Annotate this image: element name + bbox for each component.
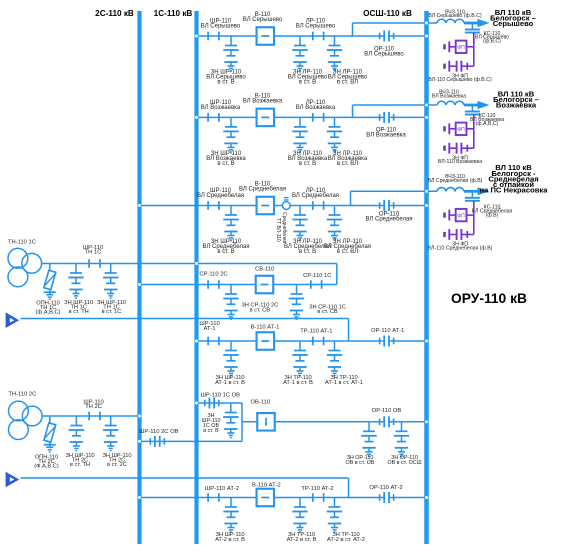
ground switch ЗН ЛР-110 ВЛ Среднебелая в ст. В (292, 206, 307, 241)
disconnector ШР-110 АТ-1 (208, 337, 219, 346)
svg-text:ШР-110 2С ОВ: ШР-110 2С ОВ (139, 429, 178, 435)
svg-text:(ф.А,В,С): (ф.А,В,С) (476, 121, 499, 127)
label ЗН СР-110 1С в ст. СВ (309, 304, 346, 315)
wire АТ-2 bay main (140, 497, 385, 499)
label ЗН ШР-110 ТН 1С в ст. 1С (97, 300, 126, 315)
ground switch ЗН ТР-110 АТ-2 в ст. В (292, 498, 307, 533)
svg-text:в ст. В: в ст. В (217, 161, 234, 167)
filter ФП ВЛ Среднебелая (456, 209, 467, 221)
svg-text:ВЛ Возжаевка: ВЛ Возжаевка (432, 93, 466, 99)
wire Серышево bay main right (389, 35, 427, 37)
breaker СВ-110 (256, 276, 274, 294)
label ОР-110 ВЛ Среднебелая (365, 212, 412, 223)
disconnector ЛР-110 ВЛ Среднебелая (313, 201, 324, 210)
label ЛР-110 ВЛ Серышево (296, 19, 336, 30)
svg-text:ВЛ Возжаевка: ВЛ Возжаевка (366, 133, 406, 139)
ground switch ЗН ФП Возжаевка (445, 143, 474, 154)
label ЗН ШР-110 1С ОВ в ст. В (202, 413, 221, 434)
wire АТ-2 transformer lead (21, 477, 349, 479)
svg-text:в ст. ВЛ: в ст. ВЛ (337, 249, 358, 255)
svg-text:ВЛ Возжаевка: ВЛ Возжаевка (296, 105, 336, 111)
ground switch ЗН ШР-110 1С ОВ в ст. В (223, 403, 238, 438)
disconnector ШР-110 ВЛ Среднебелая (208, 201, 219, 210)
svg-text:ФП: ФП (457, 213, 465, 219)
svg-text:ВЛ Среднебелая: ВЛ Среднебелая (197, 193, 244, 199)
label ЗН ФП ВЛ-110 Среднебелая (428, 242, 493, 252)
node ТН2С on 2С (138, 415, 141, 418)
wire АТ-1 transformer lead (21, 318, 349, 320)
svg-text:ТТ ВЛ-110: ТТ ВЛ-110 (275, 218, 281, 242)
node Серышево on 1С (195, 35, 198, 38)
wire ТН-110 2С to 2С bus (42, 415, 139, 417)
wire Возжаевка bay main (197, 116, 385, 118)
disconnector ШР-110 1С ОВ (205, 398, 219, 409)
node line1 on ОСШ (425, 22, 428, 25)
node АТ-2 on ОСШ (425, 496, 428, 499)
svg-text:в ст. В: в ст. В (299, 79, 316, 85)
svg-text:ВЛ Серышево: ВЛ Серышево (243, 17, 283, 23)
breaker В-110 ВЛ Возжаевка (257, 109, 275, 127)
HF cable plug ФП Серышево (445, 41, 456, 52)
svg-text:ВЛ-110 Серышево (ф.В.С): ВЛ-110 Серышево (ф.В.С) (428, 77, 492, 83)
ground switch ЗН ШР-110 ВЛ Среднебелая в ст. В (223, 206, 238, 241)
ground switch ЗН СР-110 2С в ст. СВ (223, 285, 238, 320)
svg-text:(Ф.А,В,С): (Ф.А,В,С) (34, 463, 59, 469)
label ОПН-110 ТН 1С (36, 301, 61, 316)
label ВЧЗ-110 ВЛ Возжаевка (432, 89, 466, 99)
disconnector ШР-110 АТ-2 (208, 493, 219, 502)
svg-text:ВЛ Среднебелая: ВЛ Среднебелая (365, 217, 412, 223)
ground switch ЗН ЛР-110 ВЛ Среднебелая в ст. ВЛ (327, 206, 342, 241)
label ВЛ 110 кВ Белогорск – Серышево (490, 8, 536, 28)
label ШР-110 ВЛ Возжаевка (201, 100, 241, 111)
node ОВ on 2С (138, 440, 141, 443)
wire HF drop Серышево (467, 33, 474, 67)
label ЛР-110 ВЛ Возжаевка (296, 100, 336, 111)
filter ФП ВЛ Серышево (456, 41, 467, 53)
svg-text:в ст. В: в ст. В (203, 428, 219, 434)
svg-text:в ст. ВЛ: в ст. ВЛ (337, 79, 358, 85)
line arrow ВЛ Среднебелая (464, 187, 490, 195)
ground switch ЗН ЛР-110 ВЛ Серышево в ст. В (292, 36, 307, 71)
bus 2С-110 кВ (137, 11, 141, 544)
coupling capacitor КС-110 ВЛ Возжаевка (465, 105, 480, 115)
svg-text:ОВ-110: ОВ-110 (251, 399, 271, 405)
label ШР-110 ВЛ Среднебелая (197, 188, 244, 199)
label ШР-110 АТ-1 (199, 321, 219, 332)
svg-text:в ст. В: в ст. В (217, 249, 234, 255)
ground switch ЗН СР-110 1С в ст. СВ (289, 285, 304, 320)
wire ОВ from 1С bus (197, 402, 243, 404)
label ШР-110 ВЛ Серышево (201, 19, 241, 30)
label ЗН ЛР-110 Возжаевка в ст. ВЛ (328, 151, 368, 167)
HF cable plug ФП Среднебелая (445, 210, 456, 221)
wire ТН-110 1С to 1С bus (42, 263, 197, 265)
svg-text:ФП: ФП (457, 127, 465, 133)
svg-text:ТН-110 2С: ТН-110 2С (8, 392, 36, 398)
node Среднебелая on 2С (138, 204, 141, 207)
svg-text:ОРУ-110 кВ: ОРУ-110 кВ (451, 291, 527, 306)
disconnector ШР-110 ВЛ Возжаевка (208, 113, 219, 122)
svg-text:Возжаевка: Возжаевка (496, 101, 537, 110)
svg-text:СР-110 2С: СР-110 2С (199, 271, 227, 277)
svg-text:на ПС Некрасовка: на ПС Некрасовка (480, 186, 549, 195)
svg-text:ОР-110 АТ-2: ОР-110 АТ-2 (369, 485, 402, 491)
svg-text:СВ-110: СВ-110 (255, 267, 274, 273)
ground switch ЗН ТР-110 АТ-1 в ст. АТ-1 (327, 341, 342, 376)
disconnector СР-110 1С (311, 280, 322, 289)
arrow to АТ-1 (6, 312, 20, 328)
label ЗН ШР-110 Возжаевка в ст. В (206, 151, 246, 167)
ground switch ЗН ШР-110 АТ-2 в ст. В (223, 498, 238, 533)
label ЗН ШР-110 АТ-2 в ст. В (215, 532, 245, 543)
ground switch ЗН ШР-110 ТН 2С в ст. ТН (69, 416, 84, 451)
svg-text:ВЛ Серышево: ВЛ Серышево (296, 24, 336, 30)
svg-text:в ст. ТН: в ст. ТН (70, 462, 90, 468)
filter ФП ВЛ Возжаевка (456, 123, 467, 135)
svg-text:ОВ в ст. ОСШ: ОВ в ст. ОСШ (387, 460, 421, 466)
svg-text:в ст. В: в ст. В (299, 161, 316, 167)
label ОР-110 ВЛ Возжаевка (366, 128, 406, 139)
ground switch ЗН ФП Серышево (445, 61, 474, 72)
ground switch ЗН ШР-110 ВЛ Возжаевка в ст. В (223, 117, 238, 152)
svg-text:АТ-1 в ст. АТ-1: АТ-1 в ст. АТ-1 (325, 380, 363, 386)
svg-text:ТР-110 АТ-1: ТР-110 АТ-1 (300, 328, 332, 334)
wire АТ-1 riser (348, 319, 350, 342)
HF cable plug ФП Возжаевка (445, 123, 456, 134)
svg-text:ОВ в ст. ОВ: ОВ в ст. ОВ (346, 460, 375, 466)
label КС-110 ВЛ Возжаевка (470, 113, 504, 127)
label ОПН-110 ТН 2С (34, 454, 59, 469)
coupling capacitor КС-110 ВЛ Серышево (465, 23, 480, 33)
label ВЛ 110 кВ Белогорск - Среднебелая (480, 163, 549, 194)
ground switch ЗН ШР-110 АТ-1 в ст. В (223, 341, 238, 376)
line arrow ВЛ Возжаевка (464, 101, 490, 109)
svg-text:(ф.А,В,С): (ф.А,В,С) (36, 310, 61, 316)
label КС-110 ВЛ Серышево (475, 31, 509, 45)
node АТ-1 on ОСШ (425, 340, 428, 343)
svg-text:ВЛ-110 Среднебелая (ф.В): ВЛ-110 Среднебелая (ф.В) (428, 245, 493, 251)
label ШР-110 ТН 1С (83, 245, 103, 256)
wire СВ return to 1С (197, 263, 337, 265)
ground switch ЗН ЛР-110 ВЛ Возжаевка в ст. ВЛ (327, 117, 342, 152)
svg-text:в ст. 1С: в ст. 1С (102, 309, 122, 315)
svg-text:АТ-1 в ст. В: АТ-1 в ст. В (283, 380, 313, 386)
label ОР-110 ВЛ Серышево (364, 46, 404, 57)
breaker В-110 ВЛ Среднебелая (257, 197, 275, 215)
disconnector СР-110 2С (208, 280, 219, 289)
ground switch ЗН ШР-110 ВЛ Серышево в ст. В (223, 36, 238, 71)
wire АТ-1 bay main right (389, 340, 427, 342)
label ЗН ШР-110 ТН 2С в ст. 2С (102, 453, 131, 468)
surge arrester ОПН-110 ТН 2С (44, 416, 56, 452)
line trap ВЧЗ-110 ВЛ Серышево (437, 19, 464, 23)
node АТ-2 on 2С (138, 496, 141, 499)
svg-text:(ф.В): (ф.В) (486, 212, 499, 218)
ground switch ЗН ШР-110 ТН 1С в ст. ТН (68, 264, 83, 299)
svg-text:ШР-110 АТ-2: ШР-110 АТ-2 (205, 486, 239, 492)
disconnector ШР-110 ВЛ Серышево (208, 32, 219, 41)
svg-text:СР-110 1С: СР-110 1С (303, 273, 331, 279)
ground switch ЗН ТР-110 АТ-1 в ст. В (292, 341, 307, 376)
svg-text:ВЛ Серышево: ВЛ Серышево (364, 51, 404, 57)
svg-text:АТ-2 в ст. В: АТ-2 в ст. В (215, 537, 245, 543)
wire АТ-2 bay main right (389, 497, 427, 499)
node ТН1С/СВ on 1С (195, 262, 198, 265)
svg-text:ВЛ Среднебелая (ф.В): ВЛ Среднебелая (ф.В) (428, 178, 483, 184)
label ЗН ТР-110 АТ-1 в ст. АТ-1 (325, 375, 363, 386)
label ЗН ШР-110 ТН 1С в ст. ТН (64, 300, 93, 315)
label ЗН ТР-110 АТ-1 в ст. В (283, 375, 313, 386)
svg-text:ВЛ Серышево (ф.В.С): ВЛ Серышево (ф.В.С) (428, 13, 482, 19)
disconnector ТР-110 АТ-2 (313, 493, 324, 502)
node Среднебелая on ОСШ (425, 204, 428, 207)
label ЗН ФП ВЛ-110 Возжаевка (438, 155, 482, 165)
bypass disconnector ОР-110 ВЛ Среднебелая (380, 200, 394, 211)
wire АТ-1 bay main (197, 340, 385, 342)
svg-text:1С-110 кВ: 1С-110 кВ (154, 9, 193, 18)
node ОВ on ОСШ (425, 420, 428, 423)
svg-text:Серышево: Серышево (493, 19, 534, 28)
label ВЧЗ-110 ВЛ Среднебелая (428, 174, 483, 184)
wire АТ-2 riser (348, 478, 350, 498)
bypass disconnector ОР-110 ОВ (380, 416, 394, 427)
wire ОВ to bus (389, 421, 427, 423)
ground switch ЗН ОР-110 ОВ в ст. ОСШ (394, 422, 409, 457)
label ЗН ШР-110 АТ-1 в ст. В (215, 375, 245, 386)
svg-text:АТ-1 в ст. В: АТ-1 в ст. В (215, 380, 245, 386)
bus ОСШ-110 кВ (bypass) (424, 11, 429, 544)
svg-text:в ст. ТН: в ст. ТН (69, 309, 89, 315)
arrow to АТ-2 (6, 472, 20, 488)
label ЗН СР-110 2С в ст. СВ (241, 303, 278, 314)
label ТТ ВЛ-110 Среднебелая (rotated) (275, 212, 287, 244)
svg-text:ОР-110 АТ-1: ОР-110 АТ-1 (371, 328, 404, 334)
bus 1С-110 кВ (194, 11, 198, 544)
line trap ВЧЗ-110 ВЛ Среднебелая (437, 187, 464, 191)
node СВ on 2С (138, 283, 141, 286)
svg-text:ФП: ФП (457, 45, 465, 51)
wire Среднебелая bay main right (389, 205, 427, 207)
ground switch ЗН ЛР-110 ВЛ Серышево в ст. ВЛ (327, 36, 342, 71)
breaker В-110 ВЛ Серышево (257, 27, 275, 45)
label В-110 ВЛ Возжаевка (243, 93, 283, 104)
disconnector ШР-110 2С ОВ (150, 436, 164, 447)
svg-text:в ст. 2С: в ст. 2С (107, 462, 127, 468)
breaker В-110 АТ-1 (257, 332, 275, 350)
label ЗН ЛР-110 Среднебелая в ст. В (284, 239, 331, 255)
svg-text:ВЛ Серышево: ВЛ Серышево (201, 24, 241, 30)
wire СВ bay main from 2С (140, 284, 337, 286)
svg-text:АТ-2 в ст. В: АТ-2 в ст. В (287, 537, 317, 543)
svg-text:ТН-110 1С: ТН-110 1С (8, 239, 36, 245)
node ОВ on 1С (195, 402, 198, 405)
node line2 on ОСШ (425, 104, 428, 107)
label ЗН ТР-110 АТ-2 в ст. АТ-2 (327, 532, 365, 543)
label ЗН ФП ВЛ-110 Серышево (428, 73, 492, 83)
breaker ОВ-110 (257, 413, 275, 431)
voltage transformer ТН-110 2С (9, 401, 43, 439)
label ВЛ 110 кВ Белогорск – Возжаевка (493, 90, 539, 110)
svg-text:ОР-110 ОВ: ОР-110 ОВ (372, 408, 402, 414)
node Возжаевка on 1С (195, 116, 198, 119)
label ЗН ШР-110 Среднебелая в ст. В (202, 239, 249, 255)
label ШР-110 ТН 2С (83, 399, 103, 410)
svg-text:ВЛ Среднебелая: ВЛ Среднебелая (292, 193, 339, 199)
line trap ВЧЗ-110 ВЛ Возжаевка (437, 101, 464, 105)
wire Серышево riser to line exit (353, 23, 438, 36)
node Возжаевка on ОСШ (425, 116, 428, 119)
coupling capacitor КС-110 ВЛ Среднебелая (465, 191, 480, 201)
wire HF drop Среднебелая (467, 201, 474, 235)
svg-text:в ст. ВЛ: в ст. ВЛ (337, 161, 358, 167)
node АТ-1 on 1С (195, 340, 198, 343)
wire Возжаевка riser to line exit (353, 105, 438, 117)
line arrow ВЛ Серышево (464, 19, 490, 27)
label ВЧЗ-110 ВЛ Серышево (428, 9, 482, 19)
svg-text:ШР-110 1С ОВ: ШР-110 1С ОВ (201, 392, 240, 398)
svg-text:ВЛ Возжаевка: ВЛ Возжаевка (243, 98, 283, 104)
ground switch ЗН ШР-110 ТН 2С в ст. 2С (103, 416, 118, 451)
label ЗН ЛР-110 Среднебелая в ст. ВЛ (324, 239, 371, 255)
svg-text:ТН 2С: ТН 2С (85, 404, 102, 410)
wire ОВ from 2С bus (140, 440, 243, 442)
bypass disconnector ОР-110 АТ-2 (380, 492, 394, 503)
label ЗН ОР-110 ОВ в ст. ОВ (346, 455, 375, 466)
bypass disconnector ОР-110 ВЛ Серышево (380, 31, 394, 42)
label ЗН ШР-110 ТН 2С в ст. ТН (65, 453, 94, 468)
svg-text:в ст. СВ: в ст. СВ (317, 309, 338, 315)
wire Серышево bay main (197, 35, 385, 37)
current transformer ТТ ВЛ-110 Среднебелая (282, 198, 290, 210)
svg-text:ВЛ-110 Возжаевка: ВЛ-110 Возжаевка (438, 159, 482, 165)
svg-text:АТ-2 в ст. АТ-2: АТ-2 в ст. АТ-2 (327, 537, 365, 543)
node Серышево on ОСШ (425, 35, 428, 38)
breaker В-110 АТ-2 (257, 489, 275, 507)
svg-text:2С-110 кВ: 2С-110 кВ (95, 9, 134, 18)
bypass disconnector ОР-110 АТ-1 (380, 336, 394, 347)
svg-text:ТН 1С: ТН 1С (85, 250, 102, 256)
label В-110 ВЛ Серышево (243, 12, 283, 23)
label ЗН ТР-110 АТ-2 в ст. В (287, 532, 317, 543)
svg-text:В-110 АТ-2: В-110 АТ-2 (252, 482, 281, 488)
label ЗН ШР-110 в ст. В (206, 69, 246, 85)
label ЗН ЛР-110 в ст. ВЛ (328, 69, 368, 85)
ground switch ЗН ОР-110 ОВ в ст. ОВ (361, 422, 376, 457)
voltage transformer ТН-110 1С (8, 248, 42, 286)
disconnector ЛР-110 ВЛ Возжаевка (313, 113, 324, 122)
wire Среднебелая bay main (140, 205, 385, 207)
label ЛР-110 ВЛ Среднебелая (292, 188, 339, 199)
surge arrester ОПН-110 ТН 1С (44, 264, 56, 300)
svg-text:в ст. СВ: в ст. СВ (250, 307, 271, 313)
svg-text:(ф.В.С): (ф.В.С) (483, 39, 501, 45)
wire СВ return riser (336, 264, 338, 285)
wire HF drop Возжаевка (467, 115, 474, 149)
svg-text:ВЛ Среднебелая: ВЛ Среднебелая (239, 187, 286, 193)
disconnector ШР-110 ТН 1С (89, 259, 100, 268)
wire ОВ to breaker (242, 421, 384, 423)
wire Возжаевка bay main right (389, 116, 427, 118)
ground switch ЗН ФП Среднебелая (445, 229, 474, 240)
ground switch ЗН ТР-110 АТ-2 в ст. АТ-2 (327, 498, 342, 533)
svg-text:в ст. В: в ст. В (299, 249, 316, 255)
bypass disconnector ОР-110 ВЛ Возжаевка (380, 112, 394, 123)
svg-text:ОСШ-110 кВ: ОСШ-110 кВ (363, 9, 412, 18)
label ЗН ОР-110 ОВ в ст. ОСШ (387, 455, 421, 466)
label В-110 ВЛ Среднебелая (239, 182, 286, 193)
label ЗН ЛР-110 в ст. В (288, 69, 328, 85)
ground switch ЗН ЛР-110 ВЛ Возжаевка в ст. В (292, 117, 307, 152)
wire ОВ merge riser (241, 403, 243, 441)
label КС-110 ВЛ Среднебелая (472, 205, 513, 219)
label ЗН ЛР-110 Возжаевка в ст. В (288, 151, 328, 167)
node line3 on ОСШ (425, 190, 428, 193)
disconnector ТР-110 АТ-1 (313, 337, 324, 346)
ground switch ЗН ШР-110 ТН 1С в ст. 1С (103, 264, 118, 299)
svg-text:АТ-1: АТ-1 (203, 326, 215, 332)
svg-text:ВЛ Возжаевка: ВЛ Возжаевка (201, 105, 241, 111)
svg-text:в ст. В: в ст. В (217, 79, 234, 85)
svg-text:В-110 АТ-1: В-110 АТ-1 (251, 324, 280, 330)
svg-text:ТР-110 АТ-2: ТР-110 АТ-2 (301, 486, 333, 492)
wire Среднебелая riser to line exit (351, 191, 438, 205)
disconnector ШР-110 ТН 2С (89, 412, 100, 421)
disconnector ЛР-110 ВЛ Серышево (313, 32, 324, 41)
